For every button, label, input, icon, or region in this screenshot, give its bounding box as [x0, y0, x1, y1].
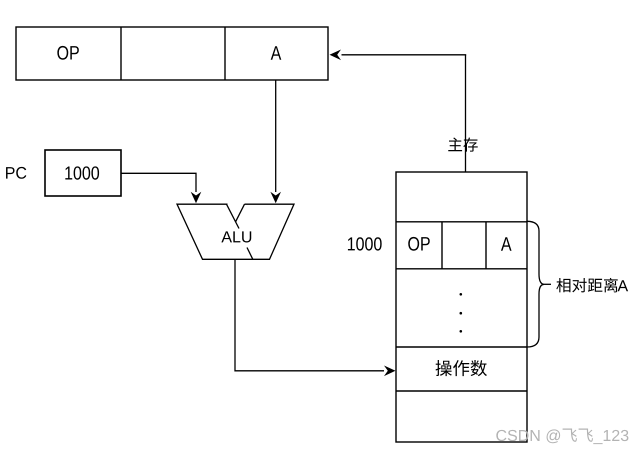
wire from memory to IR (horizontal) — [342, 54, 467, 56]
wire PC to ALU (horizontal then down) — [121, 173, 196, 192]
arrowhead into ALU right input — [270, 192, 281, 204]
label 相对距离A — [556, 278, 628, 293]
wire ALU output to memory 操作数 row — [235, 259, 384, 371]
memory instruction cell divider 1 — [441, 222, 443, 269]
arrowhead into memory operand row — [384, 366, 396, 377]
vertical ellipsis dot 3 — [460, 330, 463, 333]
vertical ellipsis dot 1 — [460, 293, 463, 296]
arrowhead into IR — [330, 50, 342, 61]
PC value 1000 — [65, 166, 99, 179]
op-amp ALU body (funnel shape) — [177, 204, 294, 260]
memory A field label — [501, 237, 512, 250]
arrowhead into ALU left input — [191, 192, 202, 204]
memory row line 3 (top of operand row) — [396, 346, 527, 348]
PC label — [6, 167, 26, 179]
memory row line 1 (top of instruction row) — [396, 221, 527, 223]
IR field divider 2 — [224, 27, 226, 80]
memory OP field label — [408, 237, 430, 251]
wire from IR A field down to ALU — [275, 80, 277, 192]
vertical ellipsis dot 2 — [460, 312, 463, 315]
memory row line 2 (bottom of instruction row) — [396, 268, 527, 270]
IR field divider 1 — [120, 27, 122, 80]
memory instruction cell divider 2 — [485, 222, 487, 269]
brace tail to label — [544, 283, 551, 285]
memory row line 4 (bottom of operand row) — [396, 390, 527, 392]
wire from memory cell 1000 up (vertical, through 主存 label) — [465, 55, 467, 222]
IR A field label — [271, 46, 282, 59]
instruction register box — [16, 27, 328, 80]
main memory box — [396, 172, 527, 442]
ALU label — [221, 231, 251, 242]
curly brace for relative distance A — [527, 221, 544, 347]
memory address label 1000 — [348, 237, 382, 250]
PC register box — [45, 150, 121, 196]
memory operand label 操作数 — [436, 360, 487, 376]
label 主存 (main memory) — [448, 137, 477, 151]
watermark CSDN @飞飞_123 — [496, 429, 628, 445]
IR OP field label — [57, 46, 79, 60]
